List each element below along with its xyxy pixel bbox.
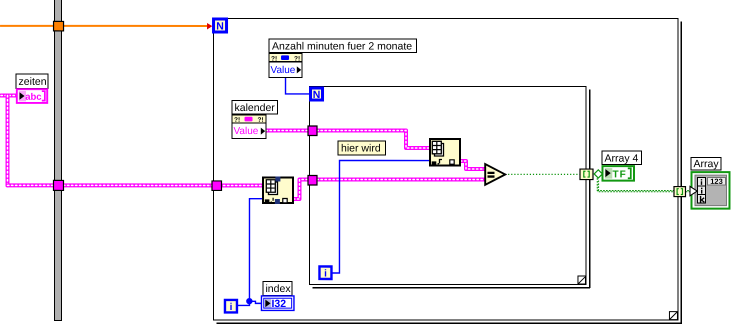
svg-text:N: N — [216, 20, 224, 32]
orange wire (count) — [0, 25, 207, 27]
magenta tunnel inner loop lower — [308, 175, 317, 185]
svg-text:N: N — [313, 89, 321, 101]
magenta string wires — [1, 95, 485, 199]
label: Array — [691, 158, 721, 171]
svg-text:?!: ?! — [258, 117, 264, 124]
vertical splitter bar — [54, 0, 61, 320]
red coercion arrow at N — [207, 23, 212, 30]
wire: diamond down — [596, 178, 598, 191]
node: equals comparison — [485, 164, 505, 185]
svg-text:?!: ?! — [234, 117, 240, 124]
svg-text:Value: Value — [234, 126, 259, 137]
magenta junction on bar — [53, 180, 63, 190]
svg-text:kalender: kalender — [235, 102, 276, 114]
svg-text:i: i — [324, 268, 327, 279]
label: kalender — [232, 100, 278, 114]
blue junction dot — [246, 298, 252, 304]
outer N box — [214, 19, 227, 33]
svg-text:123: 123 — [710, 177, 723, 186]
svg-text:hier wird: hier wird — [341, 142, 381, 154]
outer tunnel [] — [674, 187, 686, 197]
outer i box — [225, 300, 237, 313]
wire: zeiten stub left — [1, 93, 16, 97]
property node: kalender Value — [232, 115, 266, 139]
terminal: index I32 — [261, 296, 294, 311]
wire: equals output dotted to inner tunnel — [505, 173, 581, 175]
orange junction on bar — [54, 21, 64, 31]
label: hier wird — [338, 141, 386, 155]
white wire arrow into Array — [690, 186, 697, 195]
svg-text:abc: abc — [25, 92, 41, 103]
wire: long horizontal to index array — [7, 183, 262, 187]
inner loop grow notch — [578, 276, 586, 284]
node: index array 1 (outer) — [263, 176, 293, 204]
svg-text:TF: TF — [612, 169, 626, 180]
inner i box — [319, 266, 331, 279]
outer loop grow notch — [669, 312, 677, 320]
green boolean wires — [505, 173, 690, 192]
inner for-loop border — [309, 86, 590, 287]
wire: diamond to TF — [598, 173, 604, 174]
terminal: Array 4 TF — [602, 166, 634, 181]
magenta tunnel inner loop upper — [308, 126, 317, 136]
outer for-loop border — [213, 18, 681, 323]
label: Array 4 — [602, 151, 642, 165]
label: zeiten — [16, 74, 48, 89]
svg-text:I32: I32 — [271, 298, 286, 310]
label: index — [263, 281, 292, 295]
wire: Anzahl value to inner N — [286, 77, 310, 94]
inner N box — [311, 88, 323, 101]
label: Anzahl minuten fuer 2 monate — [269, 39, 417, 53]
terminal: zeiten abc — [17, 89, 47, 103]
node: index array 2 (inner) — [430, 139, 460, 166]
magenta tunnel on outer loop border — [212, 181, 222, 191]
svg-text:Array: Array — [693, 158, 719, 170]
terminal: Array indicator — [690, 172, 730, 209]
svg-text:?!: ?! — [294, 56, 300, 63]
svg-text:Array 4: Array 4 — [604, 153, 638, 165]
wire: index array output up to inner tunnel — [293, 179, 309, 199]
wire: kalender value to inner tunnel — [266, 128, 309, 132]
wire: inner lower chain to equals — [317, 177, 485, 181]
wire: index array 2 output to equals — [460, 161, 485, 169]
svg-text:?!: ?! — [271, 56, 277, 63]
blue wires — [237, 77, 429, 305]
green diamond junction — [594, 170, 602, 178]
svg-text:Anzahl minuten fuer 2 monate: Anzahl minuten fuer 2 monate — [272, 40, 412, 52]
wire: inner i to index array 2 — [332, 160, 429, 273]
property node: Anzahl Value — [269, 53, 302, 77]
wire: outer i to I32/index array — [237, 199, 262, 306]
svg-text:zeiten: zeiten — [19, 76, 47, 88]
svg-text:index: index — [265, 283, 291, 295]
svg-text:i: i — [230, 302, 233, 313]
wire: bool array to outer tunnel — [597, 190, 690, 192]
inner tunnel [] — [580, 169, 593, 180]
wire: branch to I32 — [249, 301, 261, 303]
svg-text:Value: Value — [271, 65, 296, 76]
wire: zeiten down — [5, 95, 9, 185]
wire: inner upper chain to index array 2 — [317, 130, 430, 148]
